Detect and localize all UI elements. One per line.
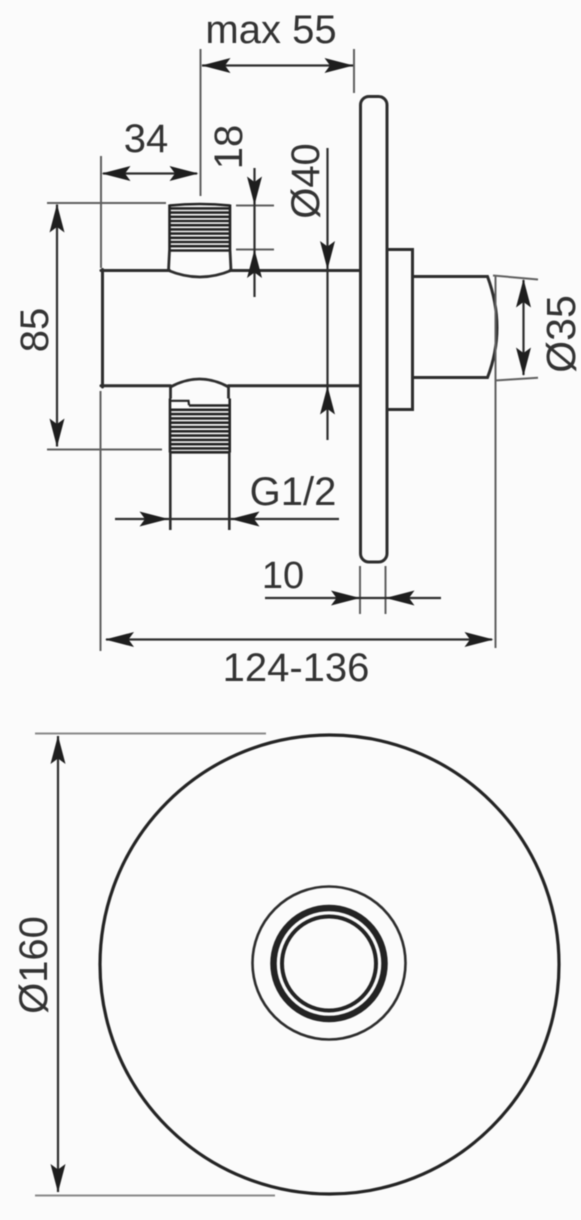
bottom inlet pipe [170,453,229,531]
svg-text:max 55: max 55 [205,8,336,52]
dim Ø160 [57,736,59,1192]
flange behind wall plate [387,250,413,410]
dim 124-136 [106,638,492,640]
ring outer [274,908,385,1019]
dim max 55 [202,64,353,66]
svg-text:Ø35: Ø35 [538,295,581,373]
dim 124-136 extension lines [101,276,496,651]
svg-text:18: 18 [207,125,251,170]
ring inner [282,917,376,1011]
svg-text:34: 34 [124,117,169,161]
svg-text:Ø160: Ø160 [12,916,56,1014]
dim 18 extension ticks [236,206,274,250]
dim 85 [56,205,58,447]
wall plate [361,97,388,563]
dim 10 [265,597,441,599]
dim Ø40 [326,148,328,440]
bottom threaded nipple collar [171,379,229,399]
dim G1/2 [115,518,339,520]
dim 10 extension lines [360,566,386,614]
top nipple collar [169,251,232,278]
dim max 55 extension lines [201,49,355,196]
dim Ø160 extension lines [35,734,275,1196]
svg-text:Ø40: Ø40 [284,143,328,219]
dim Ø35 extension ticks [493,276,538,381]
svg-text:85: 85 [13,308,57,353]
svg-text:G1/2: G1/2 [250,470,337,514]
dim Ø35 [522,280,524,375]
boss circle [253,887,406,1040]
dim 18 [253,168,255,297]
valve body outline [101,270,361,388]
bottom threaded nipple [170,399,230,453]
escutcheon outer circle [100,735,559,1194]
dim 85 extension lines [47,203,166,450]
dim 34 extension line [100,156,102,268]
svg-text:124-136: 124-136 [223,646,370,690]
svg-text:10: 10 [262,555,304,597]
outlet pipe with curved end [413,277,497,378]
dim 34 [103,172,197,174]
top threaded nipple [170,204,231,251]
